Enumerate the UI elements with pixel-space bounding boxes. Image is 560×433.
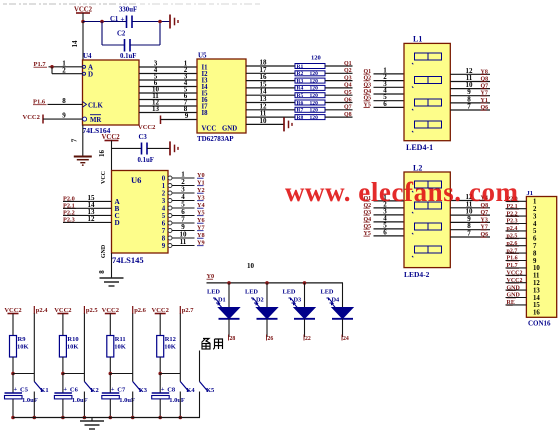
wire L2 pin 9 to net Y3 [450, 221, 490, 223]
svg-text:16: 16 [533, 310, 540, 317]
wire R12 to junction [159, 357, 161, 374]
svg-text:VCC2: VCC2 [138, 124, 155, 131]
wire P2.3 to U6 pin 12 [63, 221, 112, 223]
wire p2.5 down to switch K2 [83, 314, 85, 382]
svg-text:VCC2: VCC2 [23, 114, 40, 121]
resistor R5 120 [295, 93, 325, 98]
connector J1 CON16 [526, 197, 556, 318]
wire U4 pin12 to U5 pin7 [139, 105, 197, 107]
svg-text:+: + [161, 386, 165, 393]
wire VCC2 to resistor R12 [159, 314, 161, 336]
wire junction down to capacitor C5 [12, 374, 14, 394]
svg-text:1: 1 [162, 183, 166, 190]
svg-text:120: 120 [310, 108, 319, 114]
svg-text:10: 10 [247, 262, 255, 270]
wire L2 pin 12 to net Y4 [450, 200, 490, 202]
svg-text:LED4-2: LED4-2 [404, 270, 430, 279]
wire net Y5 to L2 pin 6 [374, 235, 405, 237]
svg-text:R11: R11 [115, 336, 126, 343]
svg-text:LED: LED [245, 289, 258, 296]
svg-text:C2: C2 [117, 31, 126, 38]
wire R9 to junction [12, 357, 14, 374]
wire U5 pin12 to resistor R7 [246, 109, 295, 111]
wire U6 output 5 to net Y5 [172, 215, 195, 217]
wire P2.1 to J1 pin 2 [506, 208, 527, 210]
switch K2 [84, 382, 93, 392]
svg-text:3: 3 [162, 198, 166, 205]
resistor R12 10K [157, 336, 164, 358]
svg-text:2: 2 [162, 190, 166, 197]
svg-text:Q6: Q6 [344, 97, 352, 103]
output bubble pin 2 of U6 [168, 191, 172, 195]
svg-text:Q2: Q2 [344, 68, 352, 74]
svg-text:8: 8 [98, 270, 106, 274]
wire U6 output 7 to net Y7 [172, 230, 195, 232]
svg-text:LED: LED [207, 289, 220, 296]
node LED D1 anode junction [227, 281, 231, 285]
wire rail to LED D3 anode [304, 283, 306, 308]
wire P1.7 to U4 pin1 [49, 66, 83, 68]
wire top rail left segment [83, 21, 127, 23]
svg-text:D: D [88, 71, 93, 79]
wire C3 to ground [147, 147, 170, 149]
svg-text:+: + [14, 386, 18, 393]
svg-text:R7: R7 [297, 108, 304, 114]
svg-text:+: + [111, 386, 115, 393]
node rail at K4 [179, 416, 183, 420]
wire p2.7 to J1 pin 8 [506, 252, 527, 254]
wire R11 to junction [109, 357, 111, 374]
ground under U4 pin7 [74, 156, 92, 158]
svg-text:R9: R9 [18, 336, 27, 343]
svg-text:R2: R2 [297, 71, 304, 77]
wire C2 branch bottom-right [130, 44, 160, 46]
wire P2.0 to J1 pin 1 [506, 200, 527, 202]
resistor R1 120 [295, 64, 325, 69]
svg-text:8: 8 [533, 250, 537, 257]
svg-text:8: 8 [162, 235, 166, 242]
resistor R6 120 [295, 100, 325, 105]
wire junction down to capacitor C7 [109, 374, 111, 394]
svg-text:LED: LED [321, 289, 334, 296]
output bubble pin 0 of U6 [168, 176, 172, 180]
svg-text:15: 15 [533, 302, 540, 309]
wire resistor R7 to net Q7 [325, 109, 353, 111]
wire switch K5 to ground rail [199, 392, 201, 418]
wire VCC2 to U4 pin9 MR [43, 118, 83, 120]
wire net Q1 to L2 pin 1 [374, 200, 405, 202]
capacitor C7 1.0uF electrolytic [102, 392, 120, 394]
svg-text:11: 11 [533, 273, 540, 280]
svg-text:7: 7 [533, 243, 537, 250]
wire VCC2 stem down to U6 pin16 [111, 141, 113, 171]
node P1.7 branch [50, 65, 54, 69]
svg-text:9: 9 [162, 243, 166, 250]
LED D4 [332, 308, 353, 319]
svg-text:C6: C6 [70, 387, 79, 394]
wire net Q4 to L1 pin 4 [374, 93, 405, 95]
wire switch K1 to ground rail [33, 392, 35, 418]
resistor R4 120 [295, 85, 325, 90]
resistor R2 120 [295, 71, 325, 76]
wire net Y5 to L1 pin 6 [374, 106, 405, 108]
wire junction to switch column p2.4 [13, 373, 34, 375]
wire U6 output 1 to net Y1 [172, 185, 195, 187]
svg-text:R3: R3 [297, 78, 304, 84]
svg-text:14: 14 [71, 40, 79, 48]
svg-text:1: 1 [533, 199, 537, 206]
svg-text:7: 7 [467, 230, 471, 238]
wire net Q3 to L1 pin 3 [374, 86, 405, 88]
svg-text:1.0uF: 1.0uF [169, 397, 185, 404]
wire RE to J1 pin 15 [506, 304, 527, 306]
svg-text:K3: K3 [139, 387, 148, 394]
svg-text:9: 9 [62, 112, 66, 120]
wire switch K4 to ground rail [179, 392, 181, 418]
svg-text:22: 22 [305, 336, 311, 342]
node C2 branch left [100, 20, 104, 24]
wire into U4 pin2 [52, 73, 83, 75]
svg-text:C8: C8 [167, 387, 176, 394]
capacitor C5 1.0uF electrolytic [5, 392, 23, 394]
node rail at C7 [109, 416, 113, 420]
wire net Q1 to L1 pin 1 [374, 73, 405, 75]
wire resistor R1 to net Q1 [325, 65, 353, 67]
svg-text:6: 6 [383, 228, 387, 236]
node junction R9/C5 [11, 372, 15, 376]
svg-text:GND: GND [222, 126, 237, 133]
node rail at K3 [131, 416, 135, 420]
wire resistor R5 to net Q5 [325, 94, 353, 96]
resistor R11 10K [107, 336, 114, 358]
digit segment pair 2 of L2 [415, 202, 429, 209]
svg-text:2: 2 [533, 206, 537, 213]
ground at U5 pin10 [283, 117, 285, 131]
wire R10 to junction [62, 357, 64, 374]
wire P1.6 to J1 pin 9 [506, 260, 527, 262]
svg-text:K4: K4 [186, 387, 195, 394]
wire L2 pin 10 to net Q7 [450, 214, 490, 216]
wire VCC2 to J1 pin 12 [506, 282, 527, 284]
wire VCC2 to resistor R9 [12, 314, 14, 336]
wire P1.7 to J1 pin 10 [506, 267, 527, 269]
wire U5 pin17 to resistor R2 [246, 72, 295, 74]
svg-text:0.1uF: 0.1uF [120, 53, 136, 60]
wire to capacitor C3 [112, 147, 142, 149]
wire ground rail bottom [13, 417, 200, 419]
svg-text:C5: C5 [20, 387, 29, 394]
digit segment pair 3 of L1 [415, 99, 429, 106]
resistor R10 10K [59, 336, 66, 358]
svg-text:VCC: VCC [202, 126, 217, 133]
wire C2 branch left down [101, 22, 103, 46]
svg-text:L1: L1 [413, 35, 422, 44]
wire switch K3 to ground rail [132, 392, 134, 418]
svg-text:10K: 10K [17, 344, 29, 351]
wire resistor R8 to net Q8 [325, 116, 353, 118]
driver U5 TD62783AP [197, 59, 246, 133]
resistor R7 120 [295, 107, 325, 112]
wire C2 branch right up [159, 22, 161, 46]
svg-text:13: 13 [152, 105, 160, 113]
node C2 branch right [158, 20, 162, 24]
svg-text:1.0uF: 1.0uF [72, 397, 88, 404]
wire U5 pin18 to resistor R1 [246, 65, 295, 67]
svg-text:GND: GND [101, 244, 107, 258]
node junction R12/C8 [158, 372, 162, 376]
svg-text:Q3: Q3 [344, 75, 352, 81]
wire net Q3 to L2 pin 3 [374, 214, 405, 216]
wire C5 to ground rail [12, 399, 14, 418]
wire U5 pin10 to ground [246, 123, 284, 125]
wire P1.7 branch down to pin2 [51, 67, 53, 74]
node junction R11/C7 [109, 372, 113, 376]
capacitor C6 1.0uF electrolytic [54, 392, 72, 394]
resistor R8 120 [295, 115, 325, 120]
svg-text:Q4: Q4 [344, 83, 352, 89]
svg-text:24: 24 [343, 336, 349, 342]
svg-text:C3: C3 [139, 134, 148, 141]
wire U4 pin11 to U5 pin6 [139, 99, 197, 101]
svg-text:8: 8 [62, 97, 66, 105]
wire p2.7 down to switch K4 [179, 314, 181, 382]
digit segment pair 1 of L2 [415, 181, 429, 188]
wire U4 pin5 to U5 pin3 [139, 79, 197, 81]
svg-text:9: 9 [185, 112, 189, 120]
wire GND to J1 pin 13 [506, 289, 527, 291]
wire LED D3 cathode down [304, 319, 306, 337]
svg-text:Q8: Q8 [344, 112, 352, 118]
wire L1 pin 12 to net Y8 [450, 73, 490, 75]
wire p2.6 down to switch K3 [132, 314, 134, 382]
svg-text:6: 6 [533, 236, 537, 243]
node LED D2 anode junction [265, 281, 269, 285]
wire L2 pin 8 to net Y7 [450, 229, 490, 231]
output bubble pin 3 of U6 [168, 199, 172, 203]
capacitor C1 330uF [126, 16, 128, 29]
node rail at K2 [83, 416, 87, 420]
wire C7 to ground rail [109, 399, 111, 418]
wire VCC2 to resistor R11 [109, 314, 111, 336]
capacitor C3 0.1uF [141, 143, 143, 155]
wire spare switch top [199, 351, 201, 382]
svg-text:R5: R5 [297, 93, 304, 99]
wire GND to J1 pin 14 [506, 297, 527, 299]
wire L1 pin 8 to net Y1 [450, 102, 490, 104]
wire U6 output 8 to net Y8 [172, 237, 195, 239]
svg-text:120: 120 [310, 86, 319, 92]
svg-text:2: 2 [62, 66, 66, 74]
node rail at K1 [33, 416, 37, 420]
svg-text:14: 14 [533, 295, 540, 302]
svg-text:9: 9 [533, 258, 537, 265]
wire VCC2 to U5 pin9 [161, 119, 198, 121]
svg-text:5: 5 [533, 228, 537, 235]
svg-text:10: 10 [260, 117, 268, 125]
svg-text:LED4-1: LED4-1 [406, 143, 433, 152]
digit segment pair 2 of L1 [415, 77, 429, 84]
wire U5 pin14 to resistor R5 [246, 94, 295, 96]
wire U6 output 3 to net Y3 [172, 200, 195, 202]
svg-text:R12: R12 [165, 336, 176, 343]
node rail at C6 [61, 416, 65, 420]
wire LED D1 cathode down [228, 319, 230, 337]
svg-text:16: 16 [98, 150, 106, 158]
ground at bottom rail [80, 420, 104, 422]
wire U4 pin4 to U5 pin2 [139, 73, 197, 75]
shift register U4 74LS164 [83, 60, 140, 125]
svg-text:VCC: VCC [101, 171, 107, 184]
svg-text:C1: C1 [110, 16, 119, 23]
svg-text:U5: U5 [198, 52, 207, 60]
svg-text:p2.4: p2.4 [36, 307, 48, 314]
pin CLK label of U4 with clock mark [83, 102, 87, 108]
wire junction down to capacitor C6 [62, 374, 64, 394]
ground G1 (top right of C1) [169, 15, 171, 29]
wire LED D2 cathode down [266, 319, 268, 337]
svg-text:CON16: CON16 [528, 320, 551, 328]
wire top rail right segment [132, 21, 170, 23]
svg-text:R1: R1 [297, 64, 304, 70]
svg-text:K1: K1 [40, 387, 48, 394]
wire U6 pin8 down to ground [111, 253, 113, 278]
output bubble pin 9 of U6 [168, 244, 172, 248]
svg-text:120: 120 [310, 115, 319, 121]
svg-text:R4: R4 [297, 86, 304, 92]
wire LED D4 cathode down [342, 319, 344, 337]
wire VCC2 to J1 pin 11 [506, 274, 527, 276]
wire VCC2 stem to node [82, 13, 84, 22]
switch K5 (spare) [200, 382, 209, 392]
svg-text:K2: K2 [90, 387, 98, 394]
svg-text:K5: K5 [206, 387, 215, 394]
node junction R10/C6 [61, 372, 65, 376]
switch K4 [180, 382, 189, 392]
svg-text:CLK: CLK [88, 102, 103, 109]
svg-text:12: 12 [88, 215, 96, 223]
svg-text:28: 28 [230, 336, 236, 342]
wire C2 branch bottom-left [102, 44, 125, 46]
wire switch K2 to ground rail [83, 392, 85, 418]
wire U4 pin7 down to ground [82, 125, 84, 157]
node VCC2-top junction [81, 20, 85, 24]
svg-text:74LS145: 74LS145 [112, 255, 144, 265]
wire junction to switch column p2.5 [63, 373, 85, 375]
wire p2.4 to J1 pin 5 [506, 230, 527, 232]
display L1 LED4-1 [404, 43, 450, 140]
svg-text:13: 13 [533, 287, 540, 294]
wire p2.5 to J1 pin 6 [506, 237, 527, 239]
svg-text:0: 0 [162, 175, 166, 182]
svg-text:L2: L2 [413, 164, 422, 173]
svg-text:3: 3 [533, 213, 537, 220]
svg-text:12: 12 [533, 280, 540, 287]
node rail at C5 [11, 416, 15, 420]
svg-text:Q1: Q1 [344, 61, 352, 67]
svg-text:p2.6: p2.6 [134, 307, 146, 314]
svg-text:1.0uF: 1.0uF [22, 397, 38, 404]
svg-text:+: + [121, 16, 125, 24]
LED D3 [294, 308, 315, 319]
output bubble pin 7 of U6 [168, 229, 172, 233]
capacitor C8 1.0uF electrolytic [152, 392, 170, 394]
svg-text:26: 26 [268, 336, 274, 342]
svg-text:U6: U6 [131, 175, 141, 185]
wire L1 pin 10 to net Q7 [450, 88, 490, 90]
resistor R9 10K [10, 336, 17, 358]
wire U6 output 9 to net Y9 [172, 245, 195, 247]
output bubble pin 6 of U6 [168, 221, 172, 225]
wire P2.2 to U6 pin 13 [63, 214, 112, 216]
wire L1 pin 11 to net Q8 [450, 81, 490, 83]
wire L1 pin 9 to net Y7 [450, 95, 490, 97]
wire LED anode rail [207, 282, 344, 284]
digit segment pair 4 of L1 [415, 121, 429, 128]
wire U5 pin15 to resistor R4 [246, 87, 295, 89]
decoder U6 74LS145 [112, 171, 169, 254]
wire P2.2 to J1 pin 3 [506, 215, 527, 217]
wire rail to LED D1 anode [228, 283, 230, 308]
wire resistor R6 to net Q6 [325, 102, 353, 104]
svg-text:LED: LED [283, 289, 296, 296]
wire resistor R3 to net Q3 [325, 80, 353, 82]
svg-text:6: 6 [383, 100, 387, 108]
wire net Q5 to L1 pin 5 [374, 100, 405, 102]
wire U6 output 6 to net Y6 [172, 222, 195, 224]
wire U5 pin16 to resistor R3 [246, 80, 295, 82]
svg-text:4: 4 [533, 221, 537, 228]
svg-text:120: 120 [310, 71, 319, 77]
wire net Q2 to L1 pin 2 [374, 80, 405, 82]
wire VCC2 to resistor R10 [62, 314, 64, 336]
svg-text:p2.7: p2.7 [182, 307, 194, 314]
svg-text:10K: 10K [164, 344, 176, 351]
svg-text:120: 120 [311, 55, 321, 62]
wire net Q2 to L2 pin 2 [374, 207, 405, 209]
wire resistor R2 to net Q2 [325, 72, 353, 74]
output bubble pin 1 of U6 [168, 184, 172, 188]
svg-text:0.1uF: 0.1uF [138, 157, 154, 164]
wire p2.6 to J1 pin 7 [506, 245, 527, 247]
LED D1 [219, 308, 240, 319]
wire rail to LED D2 anode [266, 283, 268, 308]
digit segment pair 4 of L2 [415, 246, 429, 253]
svg-text:6: 6 [162, 220, 166, 227]
wire U6 output 4 to net Y4 [172, 207, 195, 209]
switch K1 [34, 382, 43, 392]
wire net Q5 to L2 pin 5 [374, 228, 405, 230]
digit segment pair 3 of L2 [415, 223, 429, 230]
wire net Q4 to L2 pin 4 [374, 221, 405, 223]
wire junction down to capacitor C8 [159, 374, 161, 394]
svg-text:10K: 10K [114, 344, 126, 351]
svg-text:R10: R10 [67, 336, 78, 343]
svg-text:D: D [115, 219, 120, 227]
resistor R3 120 [295, 78, 325, 83]
svg-text:Q7: Q7 [344, 105, 352, 111]
svg-text:7: 7 [162, 228, 166, 235]
wire junction to switch column p2.6 [110, 373, 132, 375]
ground at C3 [169, 141, 171, 155]
wire U5 pin11 to resistor R8 [246, 116, 295, 118]
wire P2.1 to U6 pin 14 [63, 207, 112, 209]
wire P1.6 to U4 pin8 CLK [48, 103, 83, 105]
svg-text:I8: I8 [202, 110, 209, 117]
wire U4 pin6 to U5 pin4 [139, 86, 197, 88]
switch K3 [133, 382, 142, 392]
svg-text:MR: MR [90, 117, 101, 124]
svg-text:www. elecfans. com: www. elecfans. com [285, 177, 519, 207]
